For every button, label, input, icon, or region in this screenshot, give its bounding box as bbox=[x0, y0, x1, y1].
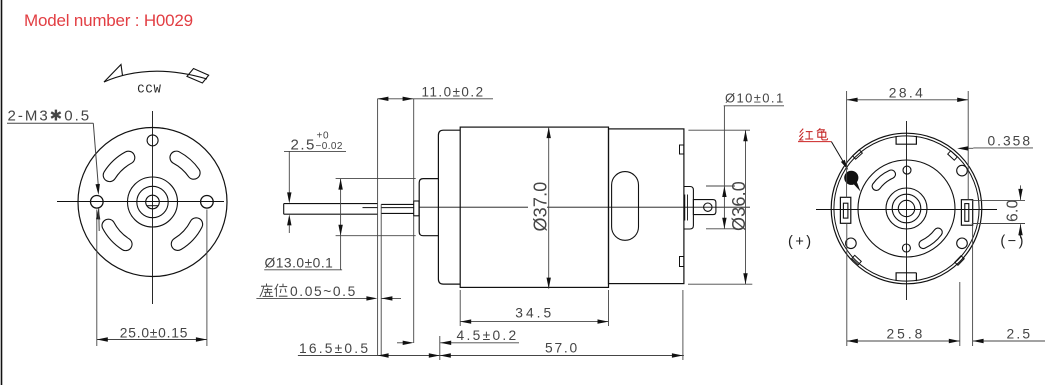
left terminal (+) tab bbox=[840, 197, 850, 223]
rear shaft stub hole bbox=[704, 203, 712, 211]
shaft top/bottom lines bbox=[284, 203, 378, 205]
shaft D-flat line bbox=[363, 207, 378, 209]
bottom chained dim line (16.5 / 57.0) bbox=[298, 355, 684, 357]
CCW curved arrow arc bbox=[104, 71, 207, 82]
rear boss inner step lines bbox=[684, 195, 686, 221]
红色 leader arrow bbox=[831, 142, 845, 166]
svg-text:(+): (+) bbox=[788, 234, 814, 250]
front view vent slot upper-left bbox=[103, 151, 135, 181]
ext line endcap face bbox=[439, 336, 441, 360]
dim 4.5 lines/arrows bbox=[397, 342, 404, 344]
rear top tab (U notch) bbox=[896, 136, 916, 144]
dim 0.358 leader arrow bbox=[966, 147, 973, 149]
dim 28.4 line bbox=[847, 99, 969, 101]
dim Ø10 vertical line w/ arrows bbox=[723, 106, 725, 229]
svg-text:(−): (−) bbox=[1000, 233, 1026, 249]
rear boss circles bbox=[886, 188, 927, 229]
rim notch NW bbox=[853, 150, 863, 159]
front view: vertical centerline bbox=[152, 111, 154, 304]
dim 0.358 underline bbox=[973, 147, 1033, 149]
front bearing boss (Ø13) bbox=[419, 179, 438, 236]
rear shaft stub bbox=[693, 200, 716, 215]
rear face slot upper-left bbox=[872, 170, 895, 190]
end-play groove lines bbox=[377, 99, 379, 356]
front view vent slot lower-right bbox=[171, 218, 202, 251]
dim 2.5 line bbox=[973, 340, 1045, 342]
rear housing oval vent bbox=[612, 172, 639, 241]
dim 11.0 extension right bbox=[413, 99, 415, 201]
front view: horizontal centerline bbox=[57, 201, 224, 203]
washer at shaft exit bbox=[414, 201, 419, 216]
dim 25.8/2.5 ext lines bbox=[846, 223, 848, 346]
Ø10 extension lines bbox=[706, 185, 735, 187]
svg-text:4.5±0.2: 4.5±0.2 bbox=[457, 328, 519, 343]
dim 11.0±0.2 line bbox=[377, 98, 493, 100]
rear housing (Ø36) bbox=[609, 129, 684, 284]
svg-text:6.0: 6.0 bbox=[1005, 199, 1022, 222]
rim notch NE bbox=[948, 151, 958, 160]
dim 2.5 leader/arrows bbox=[288, 151, 290, 192]
Ø36 extension lines bbox=[688, 129, 750, 131]
front view right mounting hole M3 bbox=[201, 196, 214, 209]
rear housing top crimp tab bbox=[680, 145, 684, 154]
CCW tail parallelogram bbox=[187, 69, 209, 84]
left border line bbox=[1, 0, 3, 385]
front view shaft circle bbox=[146, 195, 160, 209]
dim Ø13 extension lines bbox=[336, 178, 416, 180]
svg-text:0.05~0.5: 0.05~0.5 bbox=[290, 284, 357, 299]
dim Ø10 underline bbox=[724, 105, 784, 107]
front view vent slot lower-left bbox=[102, 219, 132, 250]
svg-text:−0.02: −0.02 bbox=[316, 141, 343, 152]
red mark dot (filled) bbox=[845, 171, 858, 184]
rear annulus hole SE bbox=[957, 238, 968, 249]
svg-text:0.358: 0.358 bbox=[988, 134, 1033, 149]
dim 34.5 line bbox=[460, 321, 608, 323]
dim Ø37.0 text (rotated) bbox=[528, 181, 547, 232]
svg-text:Model number : H0029: Model number : H0029 bbox=[24, 11, 193, 30]
front view left mounting hole M3 bbox=[91, 196, 104, 209]
label 2-M3*0.5 underline bbox=[7, 122, 93, 124]
svg-text:2-M3✱0.5: 2-M3✱0.5 bbox=[8, 108, 92, 125]
rear view vertical centerline bbox=[906, 121, 908, 300]
rear face bottom hole bbox=[902, 244, 910, 252]
虚位 dim underline and arrows bbox=[256, 297, 374, 299]
rear view horizontal centerline bbox=[816, 209, 997, 211]
front view outer circle (motor face) bbox=[78, 128, 227, 277]
dim 25.8 line bbox=[847, 340, 960, 342]
rear view inner rim circle bbox=[834, 136, 979, 281]
dimension 25.0±0.15 line bbox=[97, 339, 207, 341]
红色 underline bbox=[798, 141, 831, 143]
rim notch SW bbox=[852, 255, 862, 264]
rear housing bottom crimp tab bbox=[680, 257, 684, 267]
rim notch SE bbox=[955, 256, 964, 266]
svg-text:Ø37.0: Ø37.0 bbox=[530, 181, 550, 231]
label 红色 (red) bbox=[799, 128, 827, 140]
rear face top hole bbox=[903, 166, 911, 174]
虚位 text (end-play) bbox=[260, 284, 288, 297]
svg-text:25.8: 25.8 bbox=[886, 327, 925, 342]
svg-text:11.0±0.2: 11.0±0.2 bbox=[422, 85, 485, 100]
leader to left hole bbox=[93, 123, 98, 184]
svg-text:CCW: CCW bbox=[137, 83, 162, 97]
dimension 25.0±0.15 extension lines bbox=[96, 210, 98, 347]
dim Ø37.0 vertical line bbox=[548, 127, 550, 289]
svg-text:28.4: 28.4 bbox=[889, 86, 925, 101]
rear bottom tab (U notch) bbox=[896, 273, 916, 281]
shaft section beyond groove bbox=[381, 203, 414, 205]
front view boss circle outer bbox=[128, 177, 178, 227]
svg-text:34.5: 34.5 bbox=[515, 306, 554, 321]
front view top hole bbox=[147, 135, 158, 146]
rear face slot lower-right bbox=[919, 228, 942, 248]
svg-text:57.0: 57.0 bbox=[545, 341, 579, 356]
right terminal (-) tab bbox=[961, 200, 972, 226]
front endcap bbox=[438, 130, 460, 284]
front view boss circle middle bbox=[137, 186, 168, 217]
ext line rear housing end bbox=[682, 290, 684, 360]
rear annulus hole NE bbox=[957, 165, 968, 176]
dim 6.0 arrows bbox=[1020, 185, 1022, 200]
motor body (Ø37) bbox=[460, 127, 608, 287]
dim 28.4 ext lines bbox=[846, 91, 848, 197]
svg-text:25.0±0.15: 25.0±0.15 bbox=[120, 326, 188, 341]
svg-text:Ø13.0±0.1: Ø13.0±0.1 bbox=[265, 256, 334, 271]
dim Ø13 vertical line bbox=[340, 179, 342, 270]
dim 2.5 underline bbox=[284, 150, 346, 152]
rear view face circle bbox=[858, 160, 955, 257]
CCW arrowhead (open) bbox=[104, 65, 123, 83]
svg-text:+0: +0 bbox=[317, 131, 330, 142]
front view shaft D-flat chord bbox=[147, 205, 158, 207]
svg-text:2.5: 2.5 bbox=[1007, 327, 1033, 342]
dim Ø13 underline bbox=[264, 269, 342, 271]
svg-text:Ø10±0.1: Ø10±0.1 bbox=[725, 91, 785, 106]
svg-text:Ø36.0: Ø36.0 bbox=[729, 181, 749, 231]
front view vent slot upper-right bbox=[170, 151, 200, 179]
side view horizontal centerline bbox=[419, 206, 750, 208]
rear annulus hole SW bbox=[846, 238, 857, 249]
dim Ø36.0 vertical line bbox=[745, 130, 747, 284]
rear view outer circle bbox=[831, 133, 982, 284]
dim 6.0 ext lines bbox=[972, 200, 1025, 202]
svg-text:16.5±0.5: 16.5±0.5 bbox=[299, 341, 370, 356]
leader arrow below hole bbox=[96, 208, 100, 219]
rear bearing boss (Ø10) bbox=[684, 187, 694, 230]
secondary arrow through dot bbox=[853, 181, 861, 192]
